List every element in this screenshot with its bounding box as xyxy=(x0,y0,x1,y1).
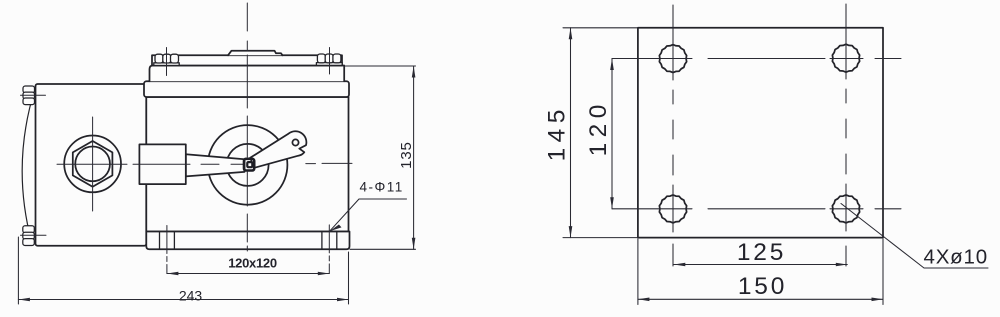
dim 145 extension top xyxy=(563,27,638,29)
top plate xyxy=(152,55,342,65)
arrow 243 left xyxy=(18,298,30,302)
svg-text:125: 125 xyxy=(737,239,786,266)
arrow 150 left xyxy=(638,298,650,302)
hole column center line right xyxy=(845,4,847,266)
svg-text:120: 120 xyxy=(585,99,612,156)
conduit hex nut xyxy=(73,141,113,187)
dim 125 line xyxy=(674,264,848,266)
conduit hex fitting outer circle xyxy=(64,136,121,193)
dim 243 line xyxy=(18,299,348,301)
dim 135 extension top xyxy=(343,65,415,67)
left cover bulge arc xyxy=(22,87,35,242)
dim 145 extension bottom xyxy=(563,237,638,239)
bolt B2 bottom-left (side view) xyxy=(23,226,35,246)
arrow 120 bottom xyxy=(610,197,614,209)
flange hole center line left xyxy=(166,226,168,274)
nut N1 top-left of cover xyxy=(154,54,179,65)
nut N1 center line xyxy=(166,48,168,76)
center lines, left view xyxy=(21,3,353,274)
dim 120x120 line xyxy=(167,273,329,275)
dim 135 line xyxy=(413,66,415,249)
dim 150 extension left xyxy=(637,239,639,305)
dim 135 extension bottom (flange base extended) xyxy=(350,248,416,250)
svg-text:243: 243 xyxy=(179,288,203,304)
input shaft bar xyxy=(186,154,245,176)
main body xyxy=(146,97,348,232)
arrow 243 right xyxy=(337,298,349,302)
leader 4-phi11 xyxy=(330,199,407,231)
arrow 120x120 right xyxy=(318,272,330,276)
handwheel inner circle xyxy=(227,144,269,186)
flange hole walls right xyxy=(321,232,323,250)
hole H1 top-left xyxy=(659,45,686,73)
arrow 135 top xyxy=(412,66,416,78)
leader 4xphi10 xyxy=(841,204,988,269)
bolt B1 top-left (side view) xyxy=(23,86,35,105)
arrow leader 4-phi11 xyxy=(330,225,342,232)
dimensions, left view xyxy=(18,66,415,304)
lever tip hole xyxy=(292,139,298,145)
shaft nut (bold) xyxy=(244,159,254,171)
dim 150 line xyxy=(638,298,883,300)
center lines, right view xyxy=(612,4,901,266)
mounting plate outline xyxy=(638,28,883,238)
hole H4 bottom-right xyxy=(832,195,859,223)
svg-text:4-Φ11: 4-Φ11 xyxy=(360,180,404,195)
arrowheads, right view xyxy=(569,28,883,301)
svg-text:150: 150 xyxy=(738,273,787,300)
hex fitting vertical center line xyxy=(92,117,94,211)
gear block on left of body xyxy=(139,144,185,184)
horizontal axis center line xyxy=(57,162,352,165)
hole H3 bottom-left xyxy=(659,195,686,223)
nut N2 center line xyxy=(329,48,331,75)
arrow 120x120 left xyxy=(167,272,179,276)
dimensions, right view xyxy=(563,28,988,305)
crank lever arm xyxy=(250,131,306,168)
arrow 150 right xyxy=(872,298,884,302)
bottom mounting flange xyxy=(146,232,349,250)
arrow 125 right xyxy=(836,263,848,267)
arrow 145 top xyxy=(569,28,573,40)
arrow 125 left xyxy=(674,263,686,267)
arrow 120 top xyxy=(610,59,614,71)
arrow 135 bottom xyxy=(412,238,416,250)
flange hole walls left xyxy=(159,232,161,250)
hole row center line bottom xyxy=(612,208,901,210)
arrowheads, left view xyxy=(18,66,415,301)
bolt B2 center line xyxy=(21,234,47,236)
vertical axis center line xyxy=(246,3,248,251)
conduit inner circle xyxy=(75,147,110,182)
left cover box xyxy=(36,84,147,246)
svg-text:145: 145 xyxy=(544,104,571,161)
nut N2 top-right of cover xyxy=(316,54,342,65)
bolt B1 center line xyxy=(21,94,46,96)
top boss xyxy=(228,51,283,56)
hole column center line left xyxy=(672,5,674,266)
dim 120 line xyxy=(611,59,613,209)
dim 243 extension lines xyxy=(17,237,19,304)
dim 145 line xyxy=(570,28,572,238)
svg-text:135: 135 xyxy=(398,141,415,168)
arrow 145 bottom xyxy=(569,226,573,238)
flange hole center line right xyxy=(328,225,330,274)
svg-text:4Xø10: 4Xø10 xyxy=(924,246,988,269)
top flange band xyxy=(144,81,349,97)
hole row center line top xyxy=(612,58,901,60)
handwheel big circle xyxy=(208,125,288,205)
dim 150 extension right xyxy=(882,239,884,305)
hole H2 top-right xyxy=(832,44,859,72)
cover step xyxy=(150,66,345,82)
svg-text:120x120: 120x120 xyxy=(228,256,277,271)
